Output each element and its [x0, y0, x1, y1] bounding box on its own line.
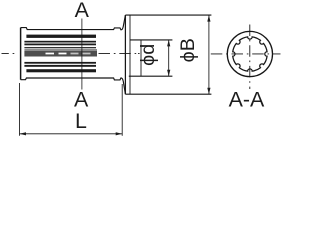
- spline bars: [24, 35, 97, 73]
- shaft outline top: [21, 15, 126, 30]
- stub top edge + ext line: [130, 39, 172, 41]
- circle vertical centerline: [249, 25, 251, 90]
- flange right face: [129, 15, 131, 94]
- L dimension extension lines: [19, 83, 21, 136]
- svg-text:A: A: [75, 0, 90, 22]
- section view outer circle: [227, 31, 272, 76]
- section view splined bore: [233, 37, 267, 71]
- svg-text:ϕd: ϕd: [137, 44, 159, 66]
- shaft outline bottom: [21, 78, 126, 94]
- white centerline dashes over center band: [46, 53, 67, 55]
- svg-text:ϕB: ϕB: [177, 38, 199, 62]
- section plane line A: [81, 19, 83, 90]
- stub right face: [140, 40, 142, 76]
- centerline right segment: [99, 52, 140, 54]
- stub bottom edge + ext line: [129, 75, 173, 77]
- svg-text:A-A: A-A: [229, 88, 265, 112]
- svg-text:A: A: [74, 88, 89, 112]
- phi-d dimension line: [168, 40, 170, 76]
- svg-text:L: L: [75, 109, 87, 133]
- center core band (gray): [24, 51, 97, 57]
- flange left face: [124, 15, 126, 94]
- left end face: [20, 28, 22, 80]
- centerline left segment: [2, 52, 15, 54]
- circle horizontal centerline: [211, 53, 281, 55]
- phi-B dimension line: [208, 15, 210, 94]
- L dimension line: [20, 133, 123, 135]
- flange top edge + phiB ext: [125, 14, 211, 16]
- flange bottom edge + phiB ext: [125, 93, 211, 95]
- L arrowheads: [20, 132, 123, 135]
